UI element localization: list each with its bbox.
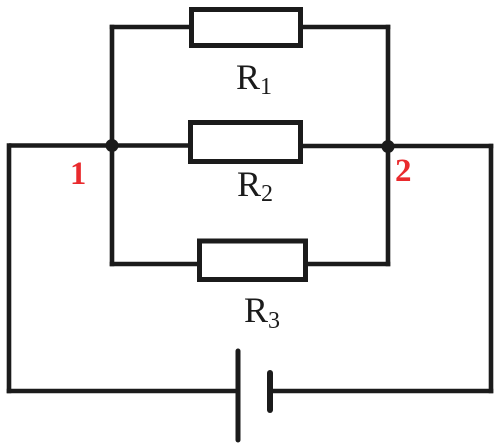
wire: R3 branch left horizontal (110, 262, 200, 267)
wire: R3 branch right vertical (up to node 2) (386, 147, 391, 266)
wire: top branch right vertical (top rail down to node 2) (386, 25, 391, 147)
wire: left outer vertical (7, 143, 12, 393)
battery short plate (negative terminal) (267, 373, 273, 410)
wire: top rail right segment from R1 (302, 25, 390, 30)
resistor R1 (192, 10, 301, 46)
wire: top branch left vertical (node 1 up to top rail) (110, 25, 115, 145)
wire: bottom rail left segment to battery (7, 389, 238, 394)
resistor R2 (191, 123, 301, 162)
wire: R3 branch right horizontal (306, 262, 390, 267)
svg-text:2: 2 (395, 153, 412, 189)
svg-text:1: 1 (70, 156, 86, 192)
resistor R3 (200, 241, 306, 280)
node 1 (junction dot) (106, 139, 119, 152)
wire: middle rail from R2 to right outer (301, 144, 493, 149)
node 2 (junction dot) (382, 140, 395, 153)
battery long plate (positive terminal) (236, 351, 241, 440)
wire: middle rail from left outer to R2 (9, 143, 190, 148)
wire: R3 branch left vertical (node 1 down) (110, 145, 115, 266)
wire: bottom rail right segment from battery (270, 389, 493, 394)
wire: top rail left segment to R1 (110, 25, 191, 30)
wire: right outer vertical (489, 144, 494, 394)
